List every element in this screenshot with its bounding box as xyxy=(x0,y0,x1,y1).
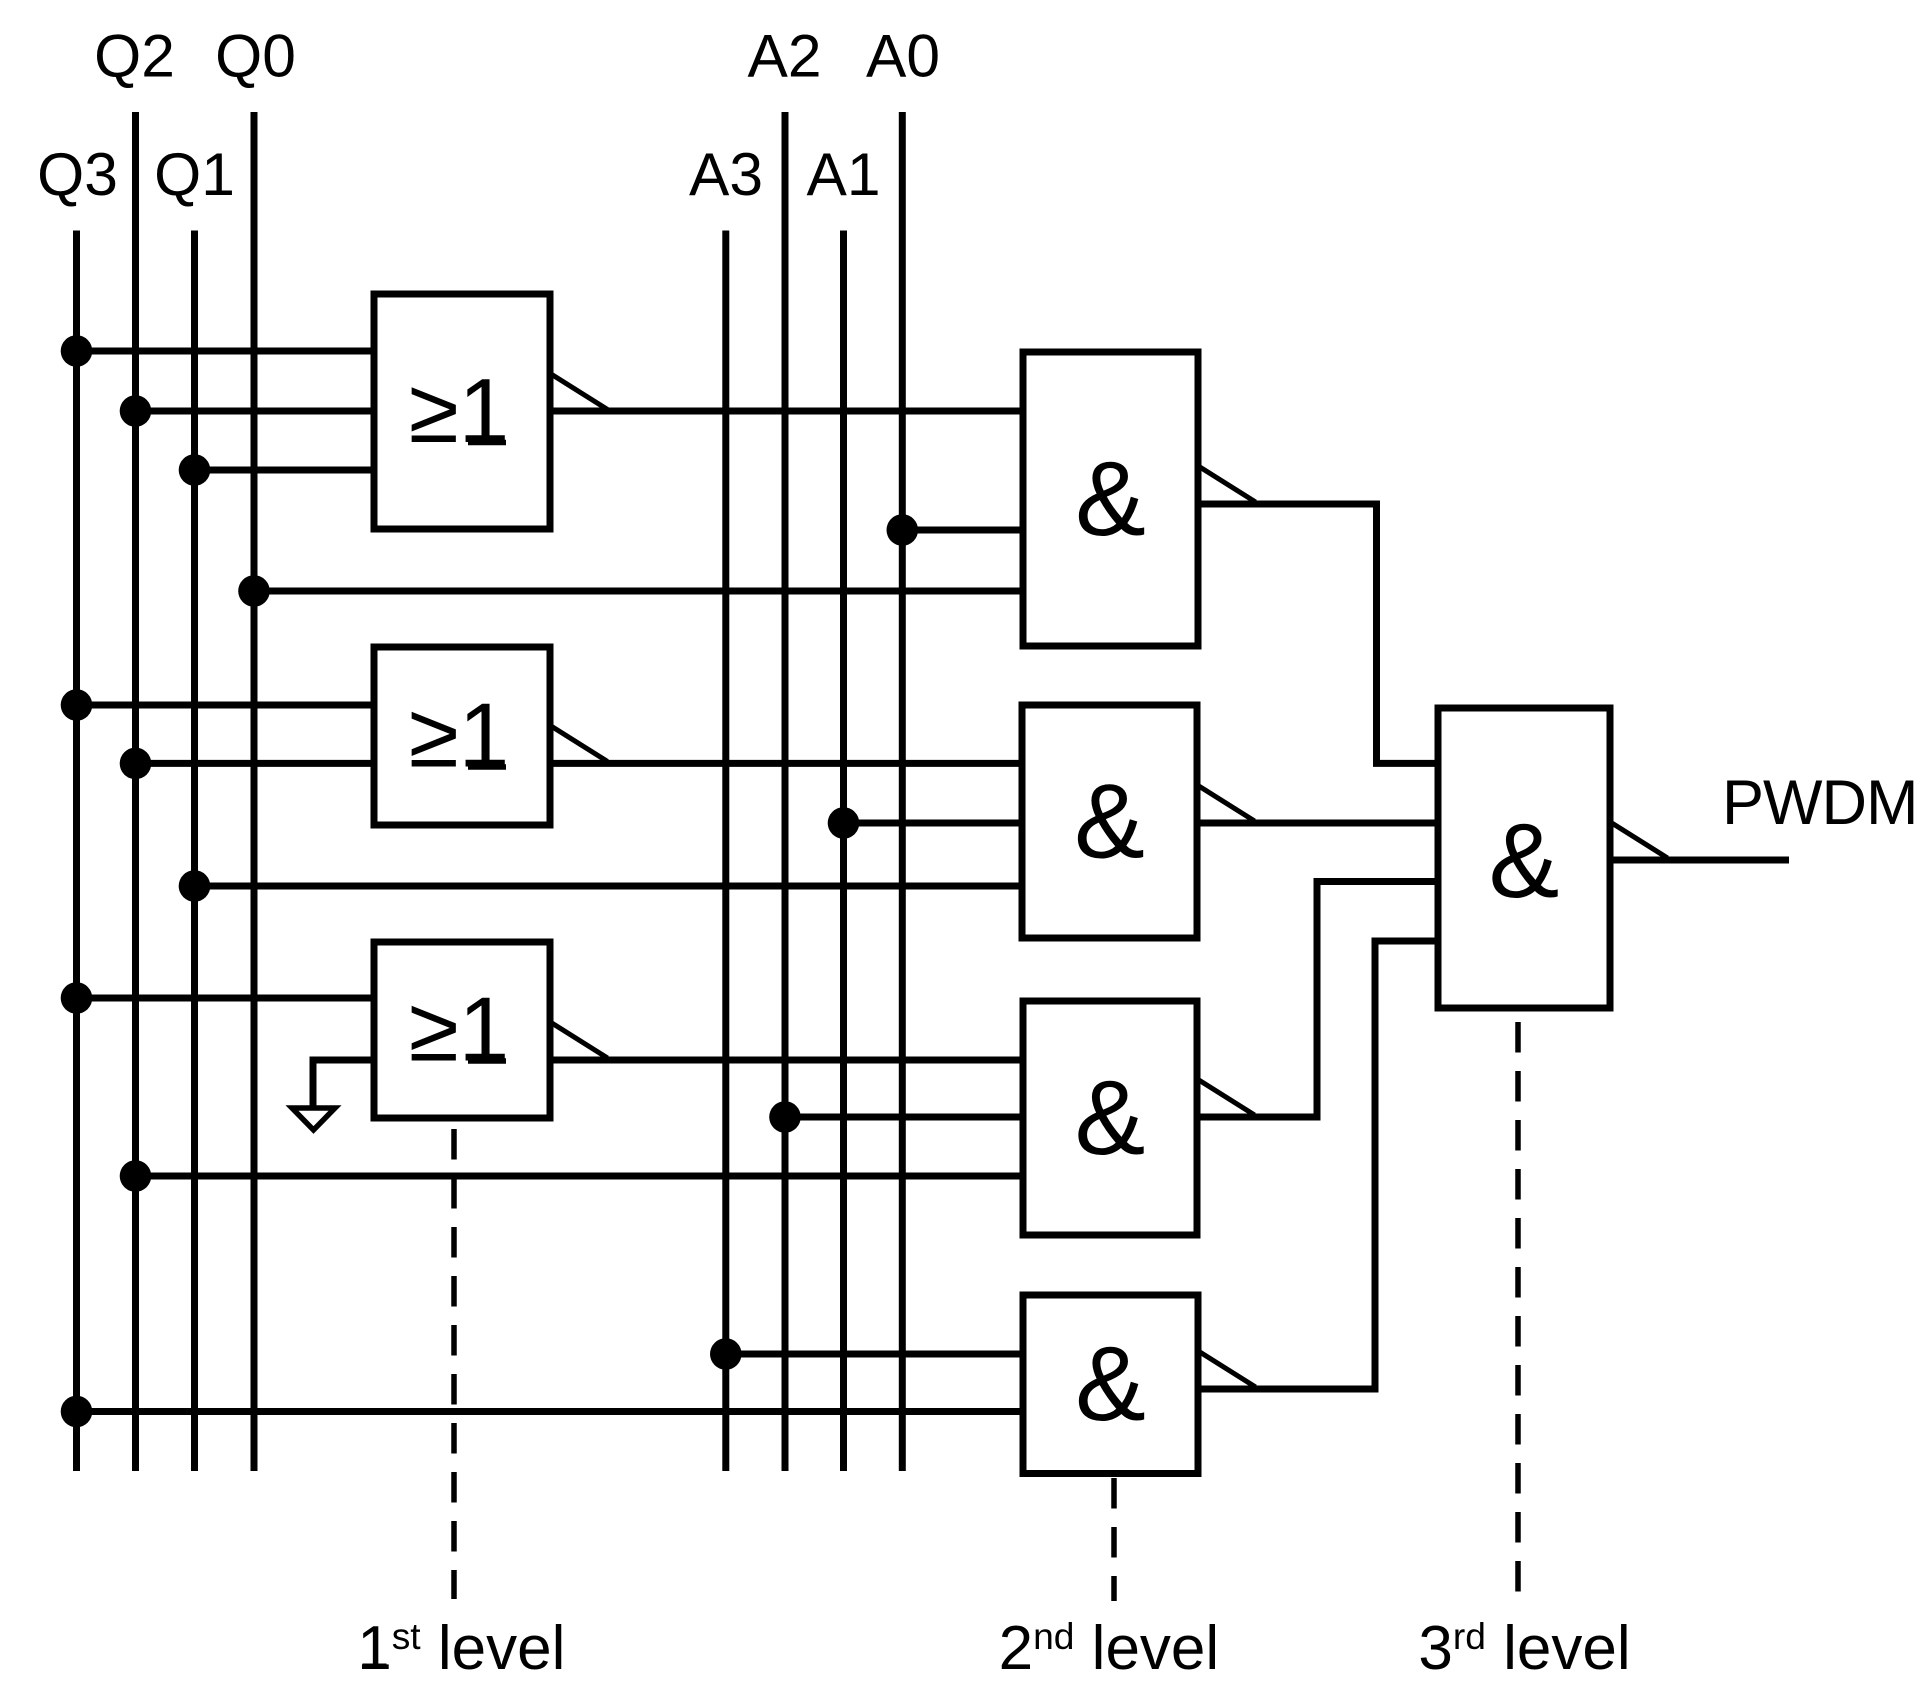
bus line A3 xyxy=(722,231,729,1472)
bus line Q0 xyxy=(251,112,258,1471)
wire AND2 output to AND5 input 2 xyxy=(1197,820,1438,827)
OR gate U3 (>=1, 1st level) xyxy=(374,942,608,1118)
wire Q2 to OR2 input 2 xyxy=(136,760,375,767)
svg-text:&: & xyxy=(1074,763,1145,881)
wire Q1 to AND2 input 3 xyxy=(195,883,1023,890)
node junction Q3/AND4.in2 xyxy=(61,1396,93,1428)
wire A1 to AND2 input 2 xyxy=(844,820,1023,827)
AND gate U5 (&, 2nd level) xyxy=(1022,705,1255,938)
ground symbol at OR3 input 2 xyxy=(292,1060,374,1130)
dashed level marker 2nd level xyxy=(1111,1478,1117,1601)
svg-text:3rd level: 3rd level xyxy=(1418,1614,1630,1683)
node junction Q3/OR1.in1 xyxy=(61,335,93,367)
wire Q2 to AND3 input 3 xyxy=(136,1173,1024,1180)
node junction Q2/OR1.in2 xyxy=(120,395,152,427)
wire AND5 output PWDM xyxy=(1610,857,1789,864)
wire OR3 output to AND3 input 1 xyxy=(550,1057,1023,1064)
svg-text:≥1: ≥1 xyxy=(409,980,510,1081)
AND gate U7 (&, 2nd level) xyxy=(1023,1295,1256,1474)
svg-text:Q2: Q2 xyxy=(94,22,175,90)
svg-text:&: & xyxy=(1075,1325,1146,1443)
node junction A2/AND3.in2 xyxy=(769,1101,801,1133)
svg-text:Q1: Q1 xyxy=(154,140,235,208)
node junction Q2/AND3.in3 xyxy=(120,1160,152,1192)
svg-text:A0: A0 xyxy=(866,22,940,90)
wire Q3 to OR2 input 1 xyxy=(77,702,375,709)
svg-text:2nd level: 2nd level xyxy=(999,1614,1220,1683)
wire OR1 output to AND1 input 1 xyxy=(550,408,1023,415)
bus line Q3 xyxy=(73,231,80,1472)
bus line A0 xyxy=(899,112,906,1471)
AND gate U4 (&, 2nd level) xyxy=(1023,352,1256,646)
node junction Q2/OR2.in2 xyxy=(120,748,152,780)
svg-text:&: & xyxy=(1075,1059,1146,1177)
wire Q2 to OR1 input 2 xyxy=(136,408,375,415)
wire AND1 output to AND5 input 1 xyxy=(1198,504,1438,763)
svg-text:≥1: ≥1 xyxy=(409,686,510,787)
svg-text:Q0: Q0 xyxy=(215,22,296,90)
annotation 1st level xyxy=(363,1664,387,1669)
svg-text:&: & xyxy=(1075,440,1146,558)
svg-text:≥1: ≥1 xyxy=(409,361,510,462)
node junction Q3/OR3.in1 xyxy=(61,982,93,1014)
wire Q0 to AND1 input 3 xyxy=(254,588,1023,595)
dashed level marker 3rd level xyxy=(1515,1022,1521,1597)
node junction A3/AND4.in1 xyxy=(710,1338,742,1370)
wire OR2 output to AND2 input 1 xyxy=(550,760,1022,767)
wire Q3 to OR1 input 1 xyxy=(77,348,375,355)
dashed level marker 1st level xyxy=(451,1129,457,1599)
OR gate U2 (>=1, 1st level) xyxy=(374,647,608,825)
svg-text:Q3: Q3 xyxy=(37,140,118,208)
wire Q3 to AND4 input 2 xyxy=(77,1408,1024,1415)
svg-text:1st level: 1st level xyxy=(357,1614,565,1683)
bus line A2 xyxy=(782,112,789,1471)
node junction A0/AND1.in2 xyxy=(887,514,919,546)
node junction Q1/AND2.in3 xyxy=(179,870,211,902)
svg-text:A1: A1 xyxy=(806,140,880,208)
node junction Q0/AND1.in3 xyxy=(238,575,270,607)
AND gate U6 (&, 2nd level) xyxy=(1023,1001,1255,1235)
wire Q1 to OR1 input 3 xyxy=(195,467,375,474)
wire A3 to AND4 input 1 xyxy=(726,1351,1023,1358)
bus line Q1 xyxy=(191,231,198,1472)
node junction Q3/OR2.in1 xyxy=(61,689,93,721)
wire A0 to AND1 input 2 xyxy=(902,527,1023,534)
AND gate U8 (&, 3rd level) xyxy=(1438,708,1668,1008)
wire A2 to AND3 input 2 xyxy=(785,1114,1023,1121)
wire AND3 output to AND5 input 3 xyxy=(1197,882,1438,1118)
svg-text:A2: A2 xyxy=(747,22,821,90)
node junction Q1/OR1.in3 xyxy=(179,454,211,486)
wire Q3 to OR3 input 1 xyxy=(77,995,375,1002)
bus line A1 xyxy=(840,231,847,1472)
wire AND4 output to AND5 input 4 xyxy=(1198,941,1438,1389)
svg-text:&: & xyxy=(1489,802,1560,920)
svg-text:A3: A3 xyxy=(689,140,763,208)
bus line Q2 xyxy=(132,112,139,1471)
OR gate U1 (>=1, 1st level) xyxy=(374,294,608,529)
svg-text:PWDM: PWDM xyxy=(1722,768,1917,838)
node junction A1/AND2.in2 xyxy=(828,807,860,839)
